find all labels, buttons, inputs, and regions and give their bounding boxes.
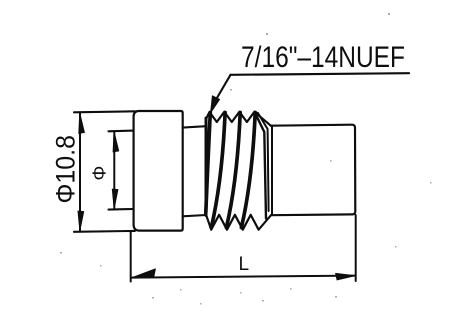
phi 10.8 bottom arrow (78, 211, 84, 231)
thread bottom zigzag (206, 215, 271, 230)
neck bottom line (183, 215, 206, 216)
thread crest band 4 (241, 113, 255, 228)
leader line (214, 75, 231, 103)
leader underline (231, 73, 410, 75)
thread last crest leaf right line (258, 113, 269, 211)
L right extension line (355, 215, 357, 281)
L left extension line (130, 231, 132, 281)
body outline (271, 125, 355, 216)
phi inner dimension line (113, 131, 115, 209)
L dimension text (239, 254, 250, 275)
thread last crest leaf left line (255, 113, 266, 219)
neck top line (183, 126, 206, 127)
svg-text:Φ: Φ (88, 166, 109, 181)
thread top zigzag (206, 112, 271, 126)
svg-text:L: L (239, 254, 250, 275)
phi inner dimension text (88, 166, 109, 181)
L right arrow (336, 273, 356, 280)
phi 10.8 bottom extension line (74, 230, 135, 233)
phi inner top extension line (109, 130, 134, 133)
scan noise specks (60, 13, 432, 305)
leader arrowhead (211, 96, 220, 113)
svg-text:Φ10.8: Φ10.8 (50, 135, 80, 204)
thread crest band 2 (211, 113, 225, 228)
phi inner top arrow (113, 131, 119, 152)
thread crest band 1 (206, 113, 211, 214)
thread left edge (205, 118, 208, 216)
phi inner bottom extension line (109, 208, 134, 211)
L left arrow (133, 269, 156, 278)
svg-text:7/16"–14NUEF: 7/16"–14NUEF (241, 41, 405, 74)
phi 10.8 dimension text (50, 135, 80, 204)
phi inner bottom arrow (112, 189, 118, 209)
thread body junction line (271, 126, 273, 215)
phi 10.8 top arrow (79, 113, 85, 134)
L dimension line (131, 276, 356, 278)
thread label text 7/16"-14NUEF (241, 41, 405, 74)
cap flange outline (134, 111, 183, 231)
phi 10.8 top extension line (74, 111, 135, 112)
thread crest band 3 (226, 113, 240, 228)
phi 10.8 dimension line (79, 113, 81, 232)
